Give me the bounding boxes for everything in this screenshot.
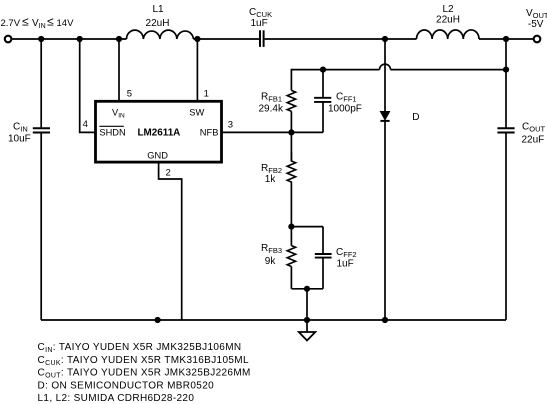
junction dot pin2 bottom — [155, 317, 161, 323]
second rail right segment — [391, 69, 507, 71]
wire pin 1 — [196, 39, 198, 101]
svg-text:22uH: 22uH — [146, 18, 170, 29]
resistor RFB2 — [287, 152, 295, 183]
junction dot CFF1 top — [320, 67, 326, 73]
wire SHDN vertical — [79, 39, 81, 132]
junction dot NFB — [288, 129, 294, 135]
svg-text:CFF2: CFF2 — [336, 247, 357, 259]
diode D — [380, 112, 389, 121]
svg-text:5: 5 — [127, 89, 132, 100]
junction dot pin1 top — [194, 36, 200, 42]
svg-text:1k: 1k — [265, 174, 277, 185]
resistor RFB3 — [287, 246, 295, 267]
wire NFB pin 3 — [222, 131, 324, 133]
label input voltage range — [1, 15, 75, 31]
ground — [299, 320, 316, 341]
resistor RFB1 — [287, 90, 295, 111]
junction dot COUT top — [503, 36, 509, 42]
wire pin 5 — [118, 39, 120, 101]
wire top rail right segment — [479, 38, 534, 40]
wire diode branch lower — [384, 121, 386, 320]
wire RFB1 top — [290, 69, 292, 91]
svg-text:29.4k: 29.4k — [259, 104, 284, 115]
svg-text:LM2611A: LM2611A — [138, 128, 181, 139]
svg-text:9k: 9k — [265, 256, 277, 267]
junction dot loop bottom — [304, 286, 310, 292]
bottom rail — [41, 319, 506, 321]
svg-text:3: 3 — [228, 119, 233, 130]
wire top rail right-middle segment — [265, 38, 417, 40]
second rail left segment — [291, 69, 379, 71]
wire SHDN horizontal pin 4 — [79, 131, 96, 133]
svg-text:1uF: 1uF — [337, 259, 354, 270]
output terminal — [534, 36, 541, 43]
junction dot RFB3 top — [288, 224, 294, 230]
wire diode branch upper — [384, 39, 386, 112]
svg-text:L2: L2 — [442, 4, 454, 15]
svg-text:1000pF: 1000pF — [328, 104, 362, 115]
capacitor CFF2 vertical top — [322, 227, 324, 254]
svg-text:SHDN: SHDN — [99, 128, 125, 138]
inductor L1 — [127, 30, 194, 39]
svg-text:1uF: 1uF — [251, 18, 268, 29]
input terminal — [5, 36, 12, 43]
junction dot diode bottom — [382, 317, 388, 323]
svg-text:L1: L1 — [152, 4, 164, 15]
svg-text:VIN: VIN — [32, 18, 46, 30]
svg-text:CIN: CIN — [13, 122, 28, 134]
wire top rail left segment — [12, 38, 126, 40]
junction dot pin5 top — [116, 36, 122, 42]
capacitor CFF1 vertical top — [322, 70, 324, 98]
svg-text:4: 4 — [83, 119, 88, 130]
wire RFB2 bottom — [290, 183, 292, 227]
svg-text:D: D — [412, 112, 419, 123]
svg-text:GND: GND — [147, 150, 168, 160]
svg-text:22uH: 22uH — [436, 15, 460, 26]
wire RFB3 loop top — [291, 226, 323, 228]
capacitor CFF2 — [315, 254, 332, 258]
svg-text:NFB: NFB — [200, 128, 219, 138]
wire RFB3 upper — [290, 227, 292, 246]
svg-text:2.7V: 2.7V — [1, 18, 21, 29]
svg-text:22uF: 22uF — [522, 135, 545, 146]
svg-text:CCUK: TAIYO YUDEN X5R TMK316BJ: CCUK: TAIYO YUDEN X5R TMK316BJ105ML — [38, 355, 249, 367]
wire RFB3 loop bottom — [291, 288, 323, 290]
junction dot ground — [304, 317, 310, 323]
overline SHDN — [99, 125, 123, 127]
wire ground stub upper — [306, 289, 308, 320]
svg-text:≤: ≤ — [47, 15, 54, 29]
wire COUT lower — [505, 133, 507, 320]
svg-text:D: ON SEMICONDUCTOR MBR0520: D: ON SEMICONDUCTOR MBR0520 — [38, 380, 215, 391]
wire CIN lower — [40, 133, 42, 320]
inductor L2 — [417, 30, 480, 39]
junction dot diode top — [382, 36, 388, 42]
capacitor CFF2 vertical bottom — [322, 258, 324, 289]
svg-text:L1, L2: SUMIDA CDRH6D28-220: L1, L2: SUMIDA CDRH6D28-220 — [38, 393, 195, 404]
junction dot CIN top — [38, 36, 44, 42]
svg-text:COUT: TAIYO YUDEN X5R JMK325BJ: COUT: TAIYO YUDEN X5R JMK325BJ226MM — [38, 368, 251, 380]
junction dot COUT second rail — [503, 67, 509, 73]
IC LM2611A — [96, 101, 222, 162]
svg-text:14V: 14V — [57, 18, 75, 29]
pin 2 wire — [159, 162, 182, 320]
svg-text:CFF1: CFF1 — [336, 92, 357, 104]
junction dot SHDN top — [77, 36, 83, 42]
svg-text:SW: SW — [189, 107, 204, 117]
svg-text:RFB1: RFB1 — [261, 92, 282, 104]
svg-text:10uF: 10uF — [8, 134, 31, 145]
capacitor CIN — [33, 128, 50, 132]
svg-text:-5V: -5V — [528, 19, 544, 30]
capacitor CFF1 vertical bottom — [322, 102, 324, 132]
svg-text:2: 2 — [166, 168, 171, 179]
wire hop over diode line — [380, 64, 391, 70]
wire CIN upper — [40, 39, 42, 127]
wire RFB3 lower — [290, 267, 292, 289]
svg-text:COUT: COUT — [522, 122, 545, 134]
svg-text:CIN: TAIYO YUDEN X5R JMK325BJ1: CIN: TAIYO YUDEN X5R JMK325BJ106MN — [38, 342, 242, 354]
capacitor COUT — [497, 128, 514, 132]
svg-text:RFB3: RFB3 — [261, 243, 282, 255]
capacitor CCUK — [260, 30, 264, 47]
svg-text:1: 1 — [204, 89, 209, 100]
svg-text:≤: ≤ — [22, 15, 29, 29]
wire RFB1 bottom — [290, 111, 292, 161]
capacitor CFF1 — [314, 98, 331, 102]
wire top rail middle segment — [194, 38, 260, 40]
wire COUT upper — [505, 39, 507, 127]
